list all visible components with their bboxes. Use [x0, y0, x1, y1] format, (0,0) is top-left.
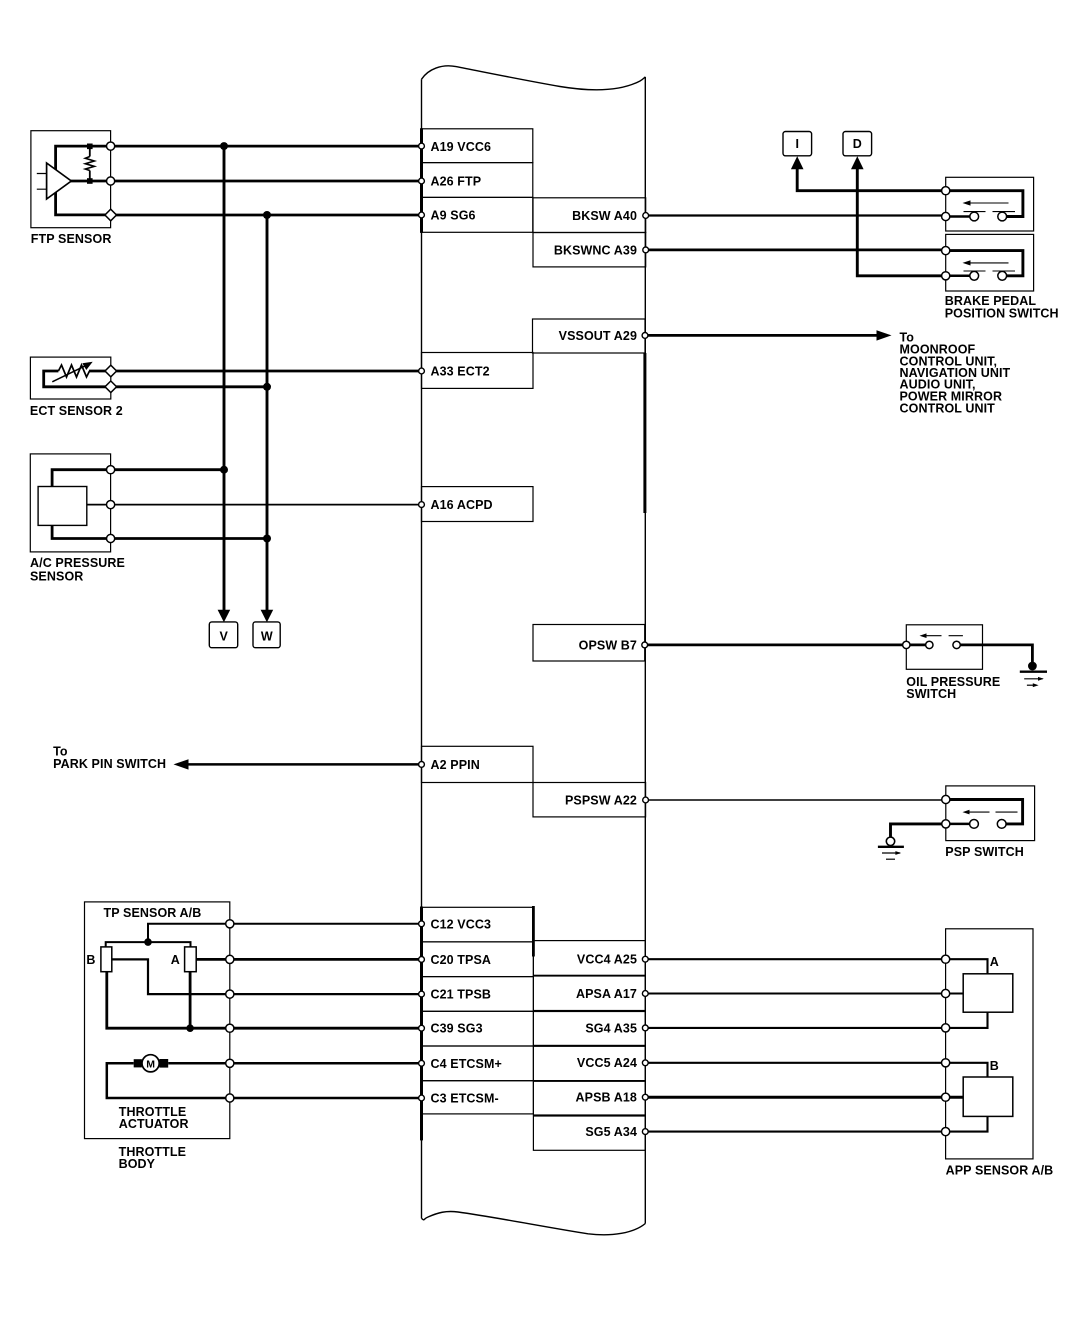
wire BKSW A40 to brake pedal position switch pin 2	[646, 214, 946, 216]
ECM/PCM connector block left border	[421, 79, 423, 1218]
ground terminal ring for PSP switch	[886, 837, 894, 845]
wire A/C pressure sensor pin 1 to V branch	[111, 468, 224, 471]
FTP sensor pin 2	[107, 177, 115, 185]
pin B7	[642, 642, 648, 648]
throttle body pin 3	[226, 990, 234, 998]
pin A17	[642, 991, 648, 997]
svg-text:ACTUATOR: ACTUATOR	[119, 1117, 189, 1131]
svg-text:VSSOUT A29: VSSOUT A29	[559, 329, 637, 343]
ECM left border thick segment (C12-C3 pin rows)	[420, 907, 423, 1141]
A/C pressure sensor element square	[38, 487, 87, 526]
junction dot TP sensor SG3 node	[186, 1024, 194, 1032]
svg-text:VCC5 A24: VCC5 A24	[577, 1056, 637, 1070]
oil pressure switch blade dashes	[923, 635, 963, 637]
throttle actuator motor brushes	[134, 1059, 142, 1067]
PSP switch ground wire	[891, 824, 946, 838]
ECM left border thick segment (A19-A9 pin rows)	[420, 128, 423, 233]
junction dot ACP pin3/W branch	[263, 535, 271, 543]
ECM pin box APSB A18	[533, 1081, 645, 1115]
PSP switch pin 2	[942, 820, 950, 828]
oil pressure switch internal wire	[906, 645, 1032, 663]
svg-text:BKSW A40: BKSW A40	[572, 209, 637, 223]
D connector box	[843, 132, 872, 156]
ECM pin box C4 ETCSM+	[422, 1046, 534, 1081]
svg-text:VCC4 A25: VCC4 A25	[577, 953, 637, 967]
V connector box	[209, 622, 237, 648]
brake switch upper internal wire pin1 to right contact	[946, 191, 1023, 217]
svg-text:PSP SWITCH: PSP SWITCH	[945, 845, 1024, 859]
svg-text:C3 ETCSM-: C3 ETCSM-	[431, 1092, 499, 1106]
FTP resistor terminal squares	[87, 144, 93, 150]
PSP switch internal wire pin1 to right contact	[946, 800, 1023, 824]
throttle body pin 5	[226, 1059, 234, 1067]
ECT sensor 2 thermistor wires	[44, 371, 111, 387]
junction dot A9/W branch	[263, 211, 271, 219]
svg-text:BODY: BODY	[119, 1157, 156, 1171]
W connector box	[253, 622, 280, 648]
ECM pin box A9 SG6	[422, 197, 533, 232]
svg-text:A9 SG6: A9 SG6	[431, 209, 476, 223]
wire C4 ETCSM+ to throttle actuator motor	[168, 1062, 421, 1065]
brake switch pin 3	[942, 247, 950, 255]
wire ECT sensor 2 pin 2 to W branch	[111, 385, 267, 388]
wire TP sensor A bottom to SG3 junction	[189, 972, 192, 1028]
brake switch upper blade	[967, 202, 1009, 204]
junction dot ECT pin2/W branch	[263, 383, 271, 391]
svg-text:C4 ETCSM+: C4 ETCSM+	[431, 1057, 502, 1071]
ECM pin box PSPSW A22	[533, 783, 646, 817]
svg-text:BKSWNC A39: BKSWNC A39	[554, 243, 637, 257]
wire A9 SG6 to FTP sensor pin 3	[111, 214, 422, 217]
svg-text:APP SENSOR A/B: APP SENSOR A/B	[946, 1164, 1054, 1178]
PSP switch blade dashes	[966, 811, 1018, 813]
wire PSPSW A22 to PSP switch pin 1	[646, 799, 946, 801]
wire A/C pressure sensor pin 3 to W branch	[111, 537, 267, 540]
brake switch lower contact dashes	[964, 270, 1016, 272]
FTP sensor pin 3	[105, 209, 117, 221]
ECM pin box VCC4 A25	[533, 941, 645, 976]
wire vertical branch to W connector	[266, 215, 269, 610]
PSP switch internal wire pin2 to left contact	[946, 823, 970, 826]
ECM torn-paper wavy bottom edge	[422, 1211, 646, 1234]
wire from I connector down to brake pedal switch pin 1	[797, 169, 946, 191]
svg-text:PARK PIN SWITCH: PARK PIN SWITCH	[53, 757, 166, 771]
pin A26	[419, 178, 425, 184]
pin A35	[642, 1025, 648, 1031]
PSP switch housing	[878, 786, 1035, 859]
ECT sensor 2 thermistor zigzag	[58, 365, 89, 377]
arrowhead to V connector	[174, 156, 892, 769]
ECT sensor 2 thermistor arrow	[52, 366, 84, 382]
brake switch upper contact dashes	[964, 211, 1016, 213]
throttle body pin 2	[226, 955, 234, 963]
wire A2 PPIN to park pin switch (arrow line)	[188, 763, 422, 766]
svg-text:APSB A18: APSB A18	[576, 1091, 637, 1105]
A/C pressure sensor outer box	[30, 454, 110, 552]
junction dot TP sensor VCC3 node	[144, 938, 152, 946]
ECM pin box C12 VCC3	[422, 907, 534, 942]
svg-text:A2 PPIN: A2 PPIN	[431, 758, 480, 772]
svg-text:FTP SENSOR: FTP SENSOR	[31, 232, 112, 246]
svg-text:SG5 A34: SG5 A34	[585, 1125, 637, 1139]
svg-text:V: V	[220, 629, 229, 643]
svg-text:SG4 A35: SG4 A35	[585, 1021, 637, 1035]
TP sensor B element	[101, 947, 112, 972]
svg-text:C12 VCC3: C12 VCC3	[431, 917, 492, 931]
svg-text:B: B	[990, 1059, 999, 1073]
wire APSB A18 to APP sensor B wiper	[645, 1096, 963, 1099]
svg-text:A33 ECT2: A33 ECT2	[431, 365, 490, 379]
brake switch lower contacts	[970, 271, 979, 280]
ECM pin box SG4 A35	[533, 1012, 645, 1046]
svg-text:POSITION SWITCH: POSITION SWITCH	[945, 307, 1059, 321]
pin C21	[419, 991, 425, 997]
APP sensor A element	[963, 974, 1013, 1012]
svg-text:C39 SG3: C39 SG3	[431, 1022, 483, 1036]
brake pedal position switch upper housing	[946, 177, 1034, 291]
ECM pin box BKSWNC A39	[533, 233, 646, 267]
wire A33 ECT2 to ECT sensor 2 pin 1	[111, 370, 422, 373]
brake switch upper contacts	[970, 212, 979, 221]
FTP sensor pin 1	[107, 142, 115, 150]
wire VCC5 A24 to APP sensor B top	[645, 1063, 987, 1077]
ECM right border thick segment below VSSOUT	[643, 353, 646, 513]
pin A22	[643, 797, 649, 803]
brake pedal position switch lower housing	[946, 234, 1034, 291]
ECM pin box C21 TPSB	[422, 977, 534, 1012]
PSP switch pin 1	[942, 795, 950, 803]
wire vertical branch to V connector	[223, 146, 226, 610]
ECM torn-paper wavy top edge	[422, 66, 646, 90]
APP sensor pin 5	[942, 1093, 950, 1101]
svg-text:M: M	[146, 1058, 155, 1070]
pin C20	[419, 957, 425, 963]
arrowhead VSSOUT to units	[877, 330, 892, 340]
ECM pin box VSSOUT A29	[533, 319, 646, 353]
APP sensor pin 1	[942, 955, 950, 963]
wire TP sensor B wiper jog to C21 TPSB	[112, 959, 422, 994]
ECT sensor pin 1	[105, 365, 117, 377]
wire A16 ACPD to A/C pressure sensor pin 2	[111, 504, 422, 506]
pin C39	[419, 1025, 425, 1031]
pin C4	[419, 1060, 425, 1066]
wire from D connector down to brake pedal switch pin 4	[857, 169, 945, 276]
throttle body outer box	[85, 902, 230, 1139]
ECT sensor pin 2	[105, 381, 117, 393]
wire A26 FTP to FTP sensor pin 2	[111, 180, 422, 183]
wire BKSWNC A39 to brake pedal position switch pin 3	[646, 248, 946, 251]
ECM pin box C20 TPSA	[422, 942, 534, 977]
ECM pin box C3 ETCSM-	[422, 1081, 534, 1114]
FTP sensor internal supply wires	[56, 146, 111, 215]
pin A16	[419, 502, 425, 508]
wire VCC4 A25 to APP sensor A top	[645, 959, 987, 974]
svg-text:W: W	[261, 629, 273, 643]
FTP sensor outer box	[31, 131, 111, 228]
wire VSSOUT A29 arrow line to other units	[645, 334, 878, 337]
FTP sensor pull-up resistor R	[89, 148, 91, 181]
wire TP sensor supply link B-top to A-top	[106, 942, 191, 947]
ECM pin box C39 SG3	[422, 1011, 534, 1046]
svg-text:PSPSW A22: PSPSW A22	[565, 793, 637, 807]
APP sensor outer box	[946, 929, 1033, 1159]
TP sensor A element	[185, 947, 197, 972]
ECM pin box A33 ECT2	[422, 353, 534, 389]
I connector box	[783, 132, 812, 156]
arrowhead to D connector	[851, 156, 864, 169]
APP sensor pin 2	[942, 989, 950, 997]
wire C20 TPSA to TP sensor A wiper	[196, 958, 421, 961]
FTP sensor amplifier output wire	[68, 180, 111, 183]
ACP sensor pin 3	[107, 534, 115, 542]
ECM pin box A16 ACPD	[422, 487, 534, 522]
ECM pin box SG5 A34	[533, 1116, 645, 1150]
svg-text:APSA A17: APSA A17	[576, 987, 637, 1001]
junction dot ACP pin1/V branch	[220, 466, 228, 474]
pin A34	[642, 1129, 648, 1135]
pin A33	[419, 368, 425, 374]
wire A19 VCC6 to FTP sensor pin 1	[111, 145, 422, 148]
svg-text:C21 TPSB: C21 TPSB	[431, 988, 492, 1002]
svg-text:B: B	[86, 953, 95, 967]
throttle body pin 4	[226, 1024, 234, 1032]
oil pressure switch housing	[906, 625, 1047, 687]
svg-text:OPSW B7: OPSW B7	[579, 638, 637, 652]
svg-text:SENSOR: SENSOR	[30, 570, 83, 584]
oil pressure switch contacts	[926, 641, 933, 648]
pin A18	[642, 1094, 648, 1100]
ACP sensor pin 2	[107, 501, 115, 509]
APP sensor B element	[963, 1077, 1013, 1116]
wire OPSW B7 to oil pressure switch	[645, 644, 907, 647]
oil pressure switch pin	[903, 641, 910, 648]
ECM pin box A2 PPIN	[422, 746, 534, 782]
brake switch pin 1	[942, 187, 950, 195]
internal thick segment on x=533 line top of C12 box	[532, 906, 535, 957]
brake switch lower blade	[967, 262, 1009, 264]
svg-text:I: I	[796, 137, 799, 151]
svg-text:A: A	[171, 953, 180, 967]
FTP sensor amplifier triangle	[47, 163, 72, 199]
svg-text:SWITCH: SWITCH	[906, 687, 956, 701]
svg-text:A/C PRESSURE: A/C PRESSURE	[30, 556, 125, 570]
svg-text:A26 FTP: A26 FTP	[431, 175, 482, 189]
svg-text:C20 TPSA: C20 TPSA	[431, 953, 492, 967]
svg-text:TP SENSOR A/B: TP SENSOR A/B	[104, 906, 202, 920]
ECM pin box APSA A17	[533, 976, 645, 1011]
svg-text:A: A	[990, 955, 999, 969]
ground symbol G401	[878, 846, 904, 848]
brake switch upper internal wire pin2 to left contact	[946, 215, 975, 218]
pin A29	[642, 333, 648, 339]
ground symbol G101	[1020, 671, 1047, 673]
pin C3	[419, 1095, 425, 1101]
PSP switch contacts	[970, 820, 979, 829]
FTP sensor input hatch lines	[37, 174, 47, 190]
A/C pressure sensor internal wires	[52, 470, 111, 539]
pin A2	[419, 762, 425, 768]
pin C12	[419, 921, 425, 927]
ECT sensor 2 outer box	[30, 357, 110, 399]
ECM pin box A26 FTP	[422, 163, 533, 198]
wire C12 VCC3 to TP sensor supply node	[148, 924, 422, 942]
ECM/PCM connector block right border	[644, 77, 646, 1224]
wire throttle actuator motor loop to C3 ETCSM-	[107, 1063, 422, 1098]
wire APSA A17 to APP sensor A wiper	[645, 992, 963, 994]
ACP sensor pin 1	[107, 466, 115, 474]
wire SG5 A34 to APP sensor B bottom	[645, 1116, 987, 1131]
svg-text:ECT SENSOR 2: ECT SENSOR 2	[30, 404, 123, 418]
junction dot A19/V branch	[144, 142, 271, 1032]
brake switch pin 4	[942, 272, 950, 280]
APP sensor pin 3	[942, 1024, 950, 1032]
component connector pins	[105, 142, 950, 1136]
brake switch lower internal wire pin4 to left contact	[946, 275, 975, 278]
brake switch lower internal wire pin3 to right contact	[946, 251, 1023, 276]
ECM pin box VCC5 A24	[533, 1046, 645, 1080]
arrowhead to I connector	[791, 156, 804, 169]
APP sensor pin 4	[942, 1059, 950, 1067]
APP sensor pin 6	[942, 1128, 950, 1136]
svg-text:D: D	[853, 137, 862, 151]
ECM pin box OPSW B7	[533, 625, 645, 662]
ECM pin box BKSW A40	[533, 198, 646, 233]
svg-text:A16 ACPD: A16 ACPD	[431, 498, 493, 512]
pin A25	[642, 956, 648, 962]
brake switch pin 2	[942, 212, 950, 220]
pin A40	[643, 213, 649, 219]
throttle body pin 1	[226, 920, 234, 928]
pin A24	[642, 1060, 648, 1066]
svg-text:A19 VCC6: A19 VCC6	[431, 140, 492, 154]
ground terminal blob for oil pressure switch	[1028, 662, 1037, 671]
throttle actuator motor M	[142, 1055, 159, 1072]
connector pins on ECM left border	[419, 143, 649, 1134]
pin A9	[419, 212, 425, 218]
throttle body pin 6	[226, 1094, 234, 1102]
ECM pin box A19 VCC6	[422, 129, 646, 1151]
svg-text:CONTROL UNIT: CONTROL UNIT	[900, 401, 996, 415]
pin A39	[643, 247, 649, 253]
wire SG4 A35 to APP sensor A bottom	[645, 1012, 987, 1028]
arrowhead A2 PPIN to park pin switch	[174, 759, 189, 769]
wire C39 SG3 to TP sensor B bottom	[107, 972, 422, 1028]
arrowhead to W connector	[261, 610, 274, 623]
pin A19	[419, 143, 425, 149]
